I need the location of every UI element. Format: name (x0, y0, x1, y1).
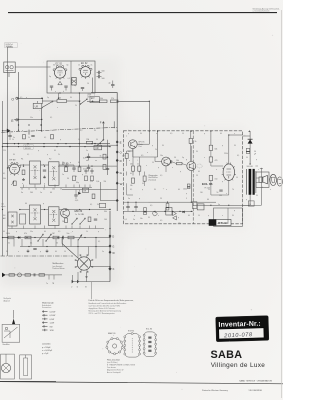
svg-text:0,5W: 0,5W (50, 319, 55, 321)
tuner lower box edge (91, 93, 117, 211)
junction dots 2 (2, 98, 230, 247)
svg-text:10k: 10k (130, 185, 133, 187)
svg-text:2k: 2k (155, 149, 157, 151)
IF transformer Fi3 (30, 205, 41, 224)
svg-text:220 V~ und 25°C Raumtemperatur: 220 V~ und 25°C Raumtemperatur. (89, 312, 116, 315)
svg-text:30: 30 (154, 189, 156, 191)
node X2 diamond (116, 150, 119, 154)
svg-text:30: 30 (162, 145, 164, 147)
svg-text:µF: µF (254, 153, 256, 155)
svg-text:5n: 5n (86, 150, 88, 152)
scale drive diagram (20, 355, 32, 379)
capacitor C10 (87, 156, 90, 158)
svg-text:0,5: 0,5 (80, 130, 82, 132)
svg-text:E: E (120, 141, 122, 145)
AM input diode (7, 129, 11, 133)
triode T3 (187, 162, 196, 171)
svg-text:K: K (113, 267, 115, 271)
svg-text:n: n (52, 130, 53, 132)
speaker LS1 (259, 175, 267, 183)
wire T2-T3 (172, 162, 177, 164)
svg-text:UR: UR (35, 105, 39, 108)
svg-text:60: 60 (44, 231, 46, 233)
tube V1 EC92 (53, 65, 67, 80)
svg-text:50: 50 (142, 183, 144, 185)
node K diamond (108, 267, 111, 271)
svg-text:30: 30 (148, 217, 150, 219)
wire AF line (17, 97, 42, 99)
resistor R33 (132, 178, 135, 183)
svg-text:n: n (147, 152, 148, 154)
svg-text:30: 30 (13, 154, 15, 156)
resistor legend rows (42, 310, 55, 332)
svg-text:n: n (158, 215, 159, 217)
svg-text:n: n (30, 139, 31, 141)
matching box (248, 201, 254, 206)
svg-text:EC 92: EC 92 (56, 64, 63, 66)
wire rung row A (3, 237, 8, 239)
svg-text:10: 10 (208, 189, 210, 191)
antenna input box (4, 62, 15, 73)
volume pot arrow (78, 235, 82, 241)
svg-text:q: q (208, 215, 209, 217)
wire rotary to rail (91, 266, 110, 268)
svg-text:0,1: 0,1 (125, 219, 127, 221)
svg-text:50k: 50k (3, 178, 6, 180)
demod box micro labels (126, 136, 239, 212)
svg-text:60: 60 (8, 130, 10, 132)
wire AM input row (6, 274, 62, 276)
svg-text:EABC 80: EABC 80 (108, 332, 115, 335)
transistor T2 (162, 157, 171, 166)
svg-text:D: D (112, 236, 114, 239)
stamp Teil-Nr (87, 93, 94, 97)
svg-text:n: n (22, 183, 23, 185)
svg-text:1k: 1k (195, 141, 197, 143)
capacitor C5 500p (98, 75, 100, 78)
faint under-switch wire (91, 282, 93, 299)
svg-text:0,5: 0,5 (68, 78, 70, 80)
wire IF row2 (20, 209, 30, 211)
component grid resistors (73, 176, 94, 181)
note Filter text (107, 359, 136, 375)
wire grid bus vertical (18, 72, 20, 131)
svg-text:n: n (226, 193, 227, 195)
svg-text:5p: 5p (47, 97, 49, 99)
svg-text:10: 10 (64, 251, 66, 253)
svg-text:q: q (222, 181, 223, 183)
svg-text:F: F (100, 120, 102, 124)
svg-text:VSO 86099/30: VSO 86099/30 (249, 390, 263, 392)
svg-text:Fi1: Fi1 (21, 159, 23, 161)
wire AGC line (62, 189, 117, 191)
svg-text:O: O (120, 150, 122, 154)
svg-text:10: 10 (198, 215, 200, 217)
svg-text:10: 10 (78, 139, 80, 141)
svg-text:Bandfilter: Bandfilter (3, 343, 11, 346)
node G diamond (109, 244, 112, 248)
capacitor C23 (33, 273, 35, 276)
svg-text:q: q (60, 139, 61, 141)
svg-text:EBF 89: EBF 89 (75, 211, 83, 213)
svg-text:1k: 1k (91, 65, 93, 67)
wire (87, 100, 100, 102)
svg-text:30k: 30k (104, 211, 107, 213)
capacitor C21 (33, 248, 36, 250)
capacitor C15 (72, 167, 75, 169)
svg-text:100: 100 (104, 219, 107, 221)
node W diamond mid (116, 181, 119, 185)
svg-text:b: b (63, 91, 64, 93)
terminal bar 2 (77, 280, 79, 284)
svg-text:1,0W: 1,0W (50, 323, 55, 325)
resistor R21 (25, 236, 31, 239)
svg-text:g: g (186, 159, 187, 161)
capacitor C40 (219, 189, 222, 191)
svg-text:25: 25 (56, 243, 58, 245)
resistor R35 (177, 162, 183, 164)
svg-text:3011043: 3011043 (25, 148, 31, 150)
wire R40 up (190, 131, 192, 138)
resistor R26 (25, 274, 31, 276)
capacitor C20 (62, 236, 64, 239)
stamp ZF-Teil (24, 145, 33, 149)
grid smudge (197, 164, 202, 168)
IF transformer Fi2 (49, 162, 60, 186)
footer rule (0, 382, 283, 384)
svg-text:220: 220 (3, 150, 6, 152)
svg-text:n: n (18, 251, 19, 253)
svg-text:0,50W: 0,50W (50, 315, 56, 317)
tick M1 (28, 130, 30, 135)
svg-text:50: 50 (21, 189, 23, 191)
component C43 (192, 202, 197, 209)
switch area extra wires (61, 238, 63, 244)
svg-text:0,1: 0,1 (130, 189, 132, 191)
IF strip stub wires (8, 185, 104, 229)
svg-text:Printed in Western Germany: Printed in Western Germany (202, 389, 229, 392)
svg-text:n = 0,001µF: n = 0,001µF (42, 350, 53, 352)
svg-text:1k: 1k (137, 164, 139, 166)
node E2 diamond (116, 140, 119, 144)
switch S4a (38, 235, 43, 242)
svg-text:10: 10 (182, 133, 184, 135)
baseline under fragments (0, 380, 56, 382)
svg-text:u. Inventar-Nummern: u. Inventar-Nummern (253, 10, 270, 13)
svg-text:30: 30 (6, 251, 8, 253)
svg-text:5n: 5n (13, 137, 15, 139)
svg-text:1000: 1000 (183, 189, 187, 191)
svg-text:60: 60 (207, 199, 209, 201)
svg-text:8p: 8p (67, 65, 69, 67)
wire to demodulator (118, 101, 149, 131)
wire branch from rule (8, 46, 14, 48)
svg-text:40µ: 40µ (76, 182, 79, 184)
box tone (166, 208, 172, 216)
svg-text:1k5: 1k5 (200, 192, 203, 194)
node W diamond (109, 250, 112, 254)
svg-text:1k: 1k (28, 137, 30, 139)
svg-text:-W.Punkt: -W.Punkt (217, 222, 227, 225)
svg-text:5n: 5n (8, 243, 10, 245)
capacitor legend rows (42, 347, 53, 355)
svg-text:10n: 10n (1, 204, 4, 206)
wire trafo bottom (243, 195, 251, 206)
trimmer capacitor C2 (50, 85, 53, 87)
wire row B (20, 246, 110, 248)
resistor R23 (68, 236, 74, 239)
capacitor C12 (106, 168, 109, 170)
title rule (8, 12, 277, 14)
svg-text:470: 470 (215, 160, 218, 162)
svg-text:10n: 10n (30, 117, 33, 119)
capacitor C18 (94, 218, 97, 220)
wire antenna to tuner (15, 66, 50, 68)
svg-text:Kennzeichen: Kennzeichen (42, 307, 51, 309)
component grid caps (84, 168, 93, 174)
svg-text:40: 40 (3, 231, 5, 233)
svg-text:Ph 209: Ph 209 (205, 187, 210, 189)
svg-text:60: 60 (198, 171, 200, 173)
svg-text:q: q (234, 210, 235, 212)
svg-text:Fi3: Fi3 (3, 215, 5, 217)
svg-text:Det.: Det. (139, 145, 143, 148)
wire IF row1 top (20, 164, 30, 166)
socket diagram ECH81 (124, 333, 141, 358)
svg-text:30: 30 (94, 130, 96, 132)
svg-text:2k: 2k (130, 145, 132, 147)
rotary switch S5 (75, 254, 93, 272)
output tube V5 ECL86 (222, 163, 236, 181)
svg-text:q: q (26, 97, 27, 99)
svg-text:1k: 1k (100, 156, 102, 158)
electrolytic C42 (144, 208, 147, 215)
resistor R6 (23, 135, 26, 139)
wire output top (190, 143, 192, 161)
svg-text:1k: 1k (12, 139, 14, 141)
svg-text:47k: 47k (24, 233, 27, 235)
tube V2 EC92 (79, 65, 92, 79)
switch wiper wire (62, 244, 79, 260)
node diamond mid2 (116, 199, 119, 203)
svg-text:0,1: 0,1 (237, 155, 239, 157)
resistor R7 1M (86, 141, 92, 144)
pick-up circle (18, 273, 22, 277)
svg-text:1k: 1k (28, 189, 30, 191)
resistor R8 (103, 154, 106, 159)
wire detector row (3, 237, 111, 239)
resistor R17 (88, 217, 91, 222)
svg-text:10W: 10W (50, 330, 54, 332)
svg-text:UR: UR (95, 148, 99, 150)
svg-text:0,5: 0,5 (150, 205, 152, 207)
box RC (99, 203, 105, 207)
vertical wire mid2 (107, 140, 109, 175)
speaker feed wire (260, 168, 262, 206)
svg-text:7k: 7k (232, 189, 234, 191)
svg-text:500: 500 (102, 71, 105, 73)
svg-text:10: 10 (87, 83, 89, 85)
switch S3b (80, 219, 85, 225)
svg-text:3n: 3n (21, 192, 23, 194)
svg-text:60: 60 (25, 203, 27, 205)
svg-text:5k: 5k (36, 130, 38, 132)
pointer arrow (12, 319, 15, 325)
chassis boundary dash line (1, 255, 74, 257)
svg-text:n: n (146, 165, 147, 167)
svg-text:q: q (152, 145, 153, 147)
wire into box (148, 131, 150, 144)
wire T1-T2 (127, 149, 133, 154)
svg-text:60: 60 (188, 215, 190, 217)
svg-text:q: q (22, 130, 23, 132)
wire LS1-LS2 (268, 178, 271, 180)
svg-text:50: 50 (96, 139, 98, 141)
coupling coil L3 (72, 78, 76, 86)
capacitor C14 (43, 169, 46, 171)
wire T3 down (190, 171, 192, 203)
svg-text:Aus im Gerätepaß: Aus im Gerätepaß (107, 371, 121, 374)
AF amplifier dashed box (123, 131, 242, 224)
wire (85, 156, 108, 158)
scatter micro labels (3, 97, 271, 253)
svg-text:0,5: 0,5 (170, 133, 172, 135)
svg-text:besch.: besch. (1, 206, 6, 208)
socket diagram ECL86 (143, 332, 157, 357)
output transformer TR1 (247, 169, 256, 195)
svg-text:n: n (222, 215, 223, 217)
svg-text:5n: 5n (128, 198, 130, 200)
svg-text:EF 89: EF 89 (10, 160, 17, 162)
svg-text:+: + (248, 129, 250, 133)
svg-text:5W: 5W (50, 326, 53, 328)
svg-text:q = 500pF: q = 500pF (42, 347, 51, 349)
svg-text:0,05: 0,05 (75, 200, 78, 202)
terminal stub b (77, 272, 79, 282)
svg-text:0,5: 0,5 (141, 155, 143, 157)
svg-text:q: q (246, 199, 247, 201)
svg-text:n: n (234, 133, 235, 135)
svg-text:5n: 5n (218, 204, 220, 206)
wire tube top to rail (229, 135, 243, 164)
wire tube V1 cathode down (58, 93, 60, 98)
lower control box (214, 208, 243, 226)
svg-text:q: q (139, 198, 140, 200)
svg-text:10k: 10k (58, 98, 61, 100)
W.Punkt label (209, 220, 231, 226)
wire left rail outer (2, 101, 4, 256)
svg-text:0,5: 0,5 (160, 175, 162, 177)
resistor R22 (53, 236, 59, 239)
capacitor C6 (111, 84, 114, 86)
svg-text:1n: 1n (75, 214, 77, 216)
rectifier diode D4 (248, 139, 253, 143)
svg-text:0,1: 0,1 (98, 241, 100, 243)
IF input wire (8, 167, 10, 169)
switch S3a (72, 219, 77, 225)
svg-text:q: q (134, 215, 135, 217)
capacitor C9 (31, 135, 34, 137)
node D2 diamond (116, 159, 119, 163)
ground g2 (44, 176, 46, 178)
svg-text:q: q (128, 133, 129, 135)
svg-text:q: q (204, 133, 205, 135)
svg-text:60: 60 (78, 162, 80, 164)
svg-text:EC 92: EC 92 (81, 63, 88, 65)
svg-text:042: 042 (88, 96, 91, 98)
svg-text:30: 30 (140, 133, 142, 135)
wire IF mid (58, 165, 117, 167)
capacitor C3 (64, 85, 67, 87)
terminal bar 1 (72, 280, 74, 284)
wire terminals (72, 281, 110, 283)
svg-text:30: 30 (232, 215, 234, 217)
svg-text:a: a (55, 91, 56, 93)
svg-text:30: 30 (53, 65, 55, 67)
tube V3 EF89 (8, 162, 21, 176)
svg-text:q: q (256, 159, 257, 161)
svg-text:Lötstellen: Lötstellen (42, 342, 51, 345)
resistor R11 (22, 170, 25, 175)
svg-text:q: q (40, 251, 41, 253)
svg-text:Abgleich: Abgleich (4, 299, 11, 302)
resistor R32 (138, 166, 141, 171)
wire bottom left cluster (123, 201, 148, 203)
anode supply rail lower (3, 146, 111, 148)
svg-text:5p: 5p (49, 76, 51, 78)
svg-text:1n: 1n (62, 174, 64, 176)
svg-text:n: n (270, 189, 271, 191)
diode D3 (183, 211, 185, 213)
electrolytic C41 (166, 204, 169, 211)
switch link vertical (41, 109, 43, 132)
tube V4 EBF89 (61, 209, 70, 218)
svg-text:G: G (112, 246, 114, 249)
svg-text:n: n (204, 157, 205, 159)
AM/FM change-over dash line (2, 127, 118, 132)
svg-text:O: O (11, 98, 14, 102)
svg-text:60: 60 (220, 133, 222, 135)
svg-text:q: q (23, 164, 24, 166)
speaker LS2 (270, 174, 277, 185)
inventory number label (216, 316, 269, 342)
svg-text:27k: 27k (111, 98, 114, 100)
electrolytic C45 (246, 148, 249, 153)
capacitor C16 (74, 194, 77, 196)
svg-text:50k: 50k (100, 98, 103, 100)
svg-text:2k: 2k (58, 154, 60, 156)
svg-text:q: q (70, 162, 71, 164)
wire demod top to box (243, 135, 251, 137)
svg-text:9: 9 (186, 198, 187, 200)
svg-text:ab: ab (86, 160, 88, 162)
resistor R16 (65, 218, 68, 223)
svg-text:5µ: 5µ (182, 157, 184, 159)
capacitor C4 500p (98, 71, 100, 74)
svg-text:q: q (16, 231, 17, 233)
wire tuner output down (78, 93, 80, 166)
signal bus vertical (157, 131, 159, 157)
switch S1a (42, 102, 53, 108)
resistor R34 (143, 176, 146, 181)
rotary top stubs (78, 238, 96, 259)
svg-text:(Tastatur): (Tastatur) (149, 179, 157, 182)
resistor R4 (100, 100, 108, 103)
svg-text:9k: 9k (97, 204, 99, 206)
wire tube V2 cathode (92, 78, 94, 94)
svg-text:5n: 5n (102, 251, 104, 253)
svg-text:q: q (186, 193, 187, 195)
